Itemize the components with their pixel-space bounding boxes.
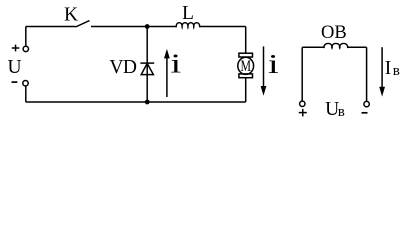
wire motor to bottom — [245, 78, 247, 102]
svg-text:L: L — [182, 3, 194, 24]
wire top to switch — [26, 26, 76, 28]
svg-text:U: U — [8, 57, 22, 78]
label + source (drawn) — [12, 47, 19, 49]
label - right circuit (drawn) — [362, 112, 368, 114]
wire OB top right — [348, 46, 367, 48]
svg-text:i: i — [268, 50, 279, 80]
wire bottom-left vertical — [25, 86, 27, 102]
svg-text:Iв: Iв — [385, 58, 400, 79]
wire OB left vertical — [301, 47, 303, 101]
svg-text:VD: VD — [109, 57, 137, 78]
arrowhead Iv down — [379, 87, 385, 97]
svg-text:i: i — [170, 49, 181, 79]
node dot top — [145, 24, 150, 29]
arrowhead i up — [164, 49, 170, 59]
arrowhead i motor down — [261, 86, 267, 96]
diode VD cathode bar — [140, 62, 154, 64]
current arrow i motor (down) — [263, 46, 265, 87]
inductor OB coil — [324, 43, 348, 48]
wire right vertical to motor — [245, 27, 247, 54]
terminal + circle — [23, 46, 28, 51]
inductor L coil — [176, 23, 200, 28]
diode VD triangle — [141, 63, 153, 74]
label - source (drawn) — [12, 81, 18, 83]
diode branch wire — [146, 27, 148, 103]
wire top-left vertical — [25, 27, 27, 47]
terminal + circle right circuit — [300, 101, 305, 106]
wire bottom horizontal — [26, 101, 246, 103]
current arrow Iv line — [381, 47, 383, 87]
svg-text:Uв: Uв — [325, 99, 345, 120]
label + right circuit (drawn) — [299, 112, 307, 114]
terminal - circle — [23, 81, 28, 86]
motor M armature circle — [238, 57, 254, 74]
terminal - circle right circuit — [364, 101, 369, 106]
svg-text:M: M — [240, 58, 251, 75]
current arrow i (freewheel, up) — [166, 57, 168, 98]
switch K blade — [76, 21, 90, 27]
wire switch to node — [91, 26, 176, 28]
wire L to corner — [200, 26, 246, 28]
wire OB right vertical — [366, 47, 368, 101]
motor brush top — [239, 53, 253, 57]
svg-text:K: K — [64, 4, 78, 25]
svg-text:ОВ: ОВ — [321, 23, 347, 43]
node dot bottom — [145, 100, 150, 105]
motor brush bottom — [239, 74, 253, 78]
wire OB top left — [302, 46, 324, 48]
